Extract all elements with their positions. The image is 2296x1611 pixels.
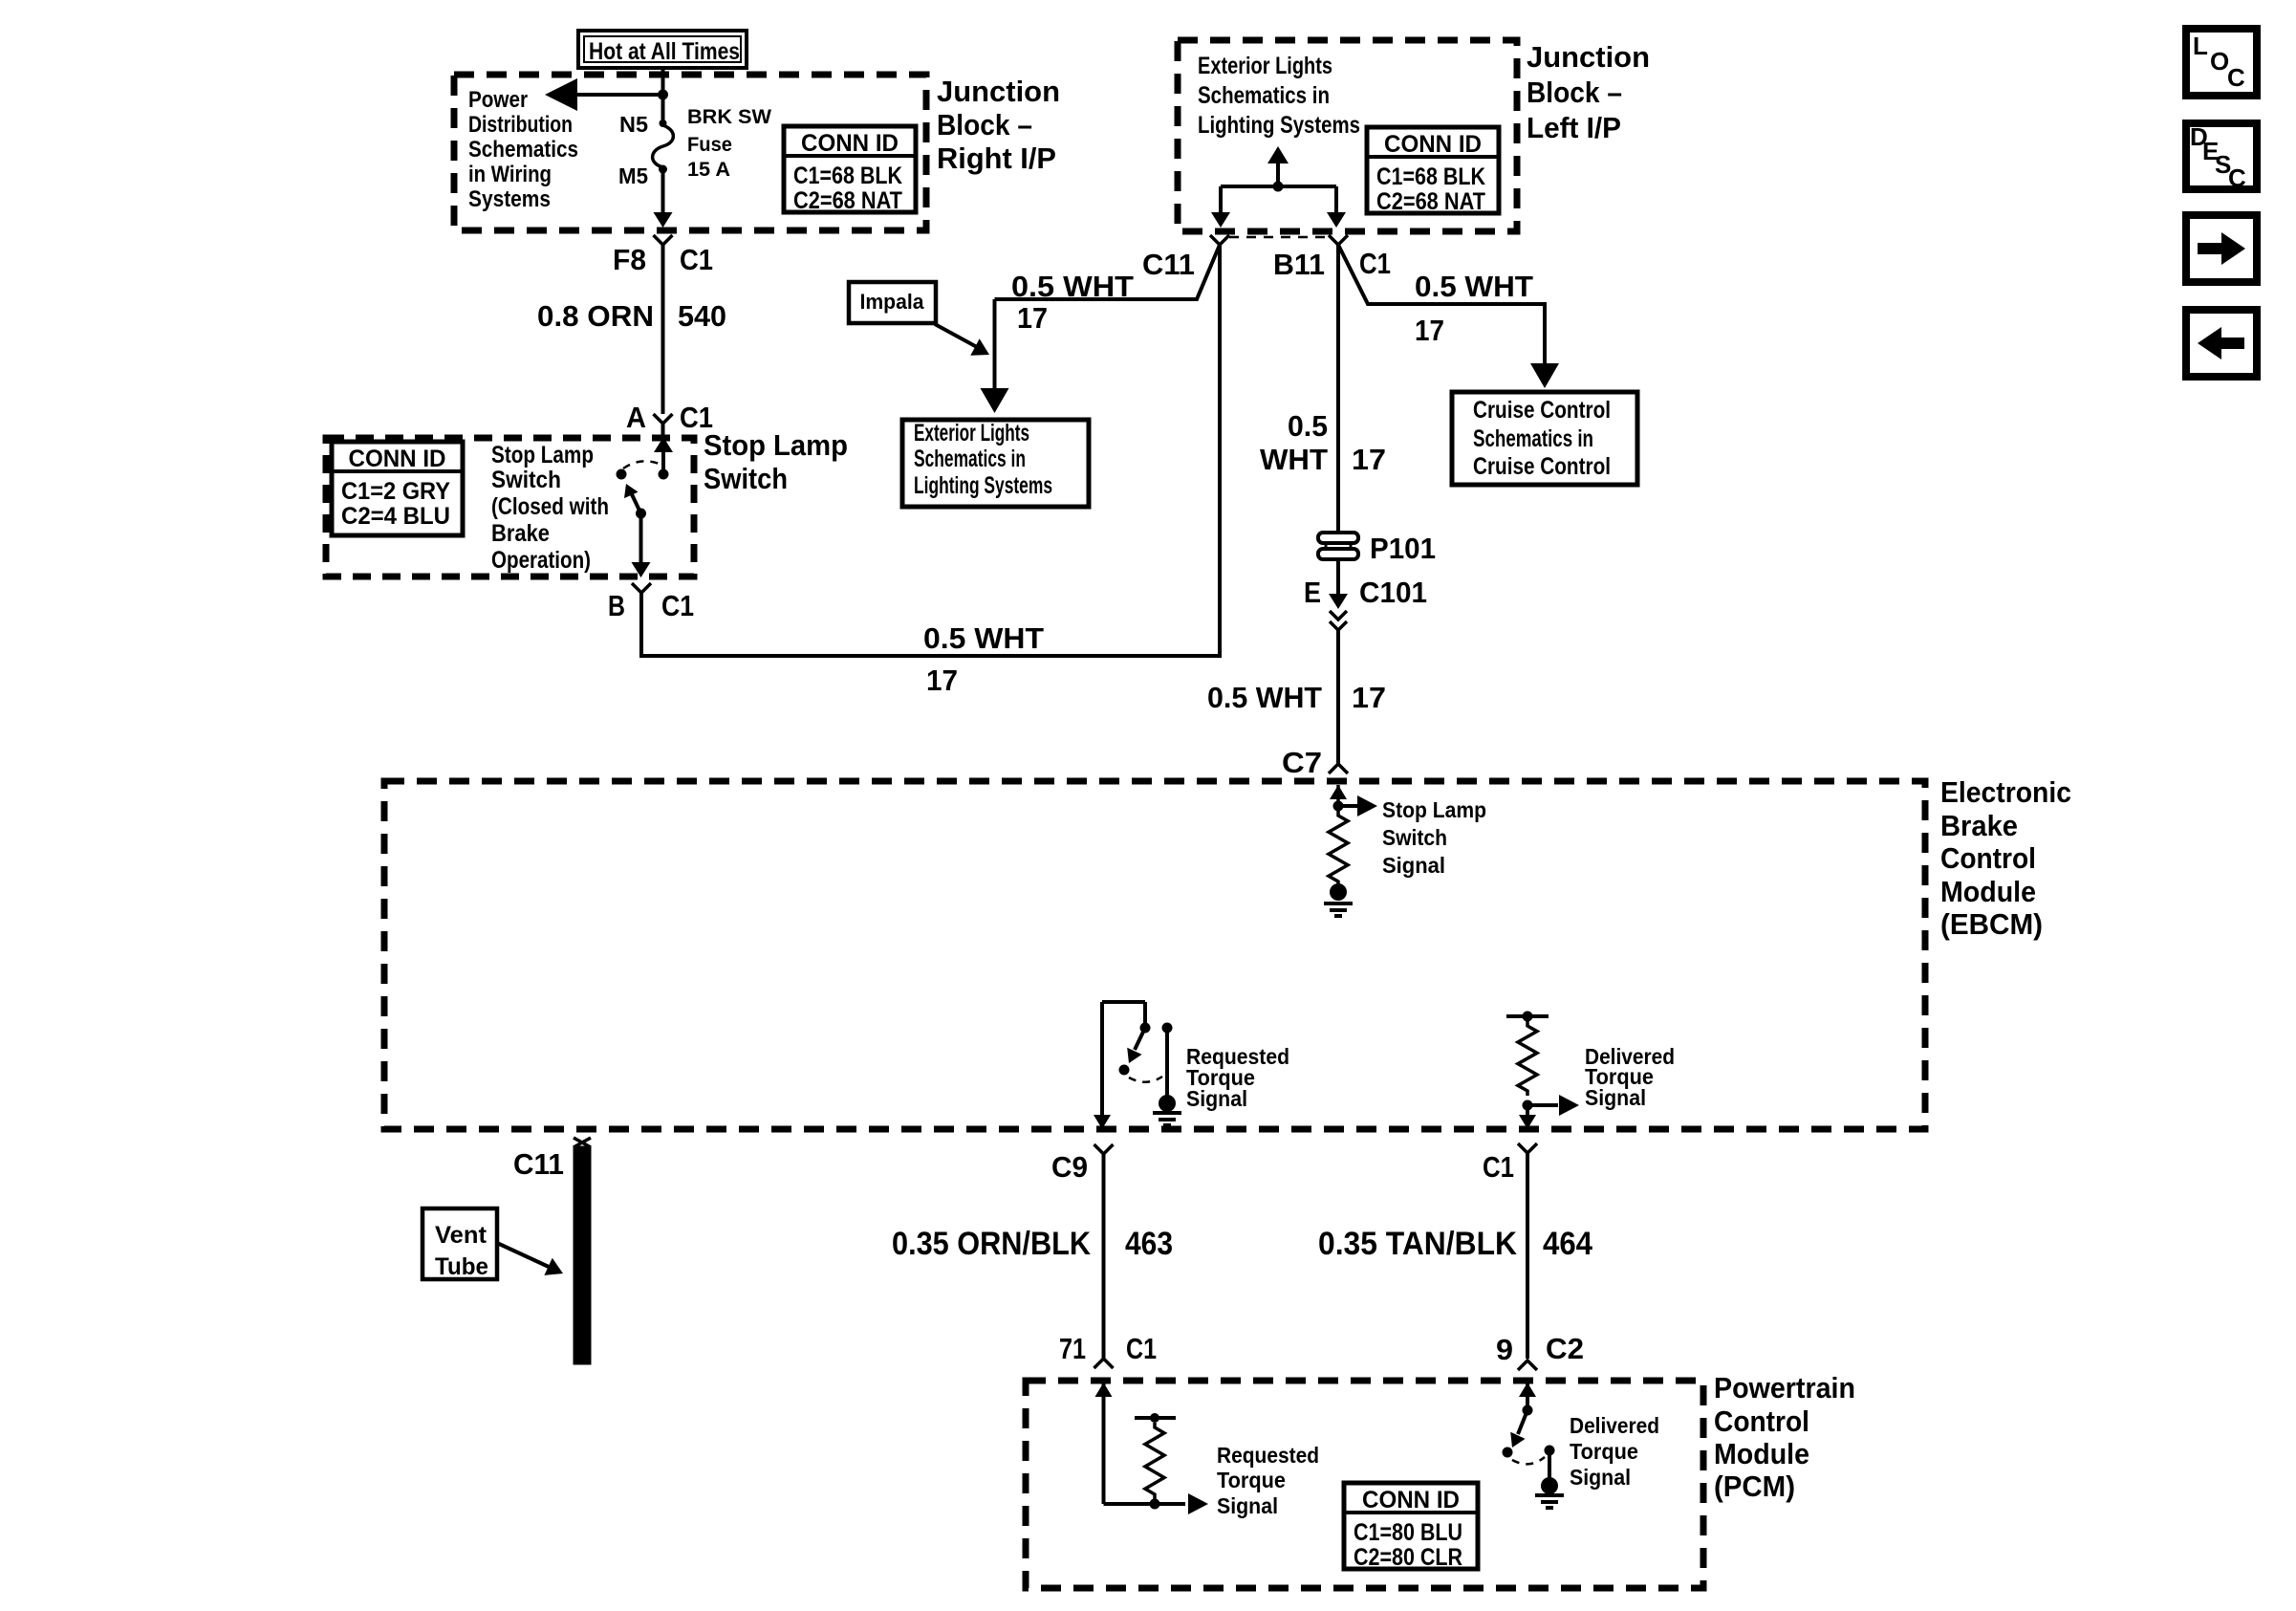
svg-text:CONN ID: CONN ID bbox=[1384, 131, 1482, 158]
arrow: Vent Tube pointer bbox=[497, 1243, 549, 1267]
svg-text:C2=68 NAT: C2=68 NAT bbox=[793, 187, 902, 214]
svg-text:Operation): Operation) bbox=[491, 547, 591, 574]
svg-text:Junction: Junction bbox=[937, 75, 1060, 108]
nav box: forward arrow bbox=[2186, 215, 2257, 282]
conn id box: junction block Right I/P (C1=68 BLK C2=68 NAT) bbox=[784, 126, 916, 212]
svg-text:C11: C11 bbox=[1142, 248, 1195, 281]
wire: drop into Exterior Lights schematics with arrow bbox=[993, 299, 997, 398]
connector B C1 of stop lamp switch bbox=[632, 583, 651, 593]
svg-text:P101: P101 bbox=[1370, 532, 1436, 565]
svg-text:Switch: Switch bbox=[1382, 825, 1447, 850]
svg-text:Right I/P: Right I/P bbox=[937, 142, 1056, 175]
svg-text:Torque: Torque bbox=[1570, 1439, 1638, 1464]
svg-text:in Wiring: in Wiring bbox=[468, 162, 552, 187]
svg-text:Signal: Signal bbox=[1570, 1465, 1631, 1490]
svg-text:Signal: Signal bbox=[1186, 1086, 1247, 1111]
svg-text:(EBCM): (EBCM) bbox=[1940, 907, 2043, 941]
svg-text:Exterior Lights: Exterior Lights bbox=[914, 420, 1029, 446]
svg-text:C9: C9 bbox=[1051, 1150, 1088, 1184]
svg-text:B: B bbox=[608, 589, 625, 622]
svg-text:Power: Power bbox=[468, 87, 528, 113]
svg-text:Module: Module bbox=[1714, 1437, 1809, 1470]
svg-text:E: E bbox=[1304, 576, 1321, 609]
svg-text:Cruise Control: Cruise Control bbox=[1473, 453, 1611, 480]
connector C9 of EBCM bbox=[1094, 1144, 1114, 1154]
svg-text:(Closed with: (Closed with bbox=[491, 493, 609, 520]
svg-text:Delivered: Delivered bbox=[1570, 1413, 1659, 1438]
svg-text:Brake: Brake bbox=[491, 520, 550, 547]
connector A C1 of stop lamp switch bbox=[654, 414, 673, 424]
svg-text:Exterior Lights: Exterior Lights bbox=[1198, 53, 1332, 79]
wire: Hot at All Times feed into junction block bbox=[661, 68, 665, 95]
PCM dashed box bbox=[1026, 1381, 1703, 1588]
wire: B11 down to grommet P101 bbox=[1336, 245, 1340, 532]
dashed tie between C11 and B11 connectors bbox=[1229, 236, 1329, 239]
connector 71 C1 of PCM bbox=[1094, 1359, 1114, 1368]
svg-text:0.35 ORN/BLK: 0.35 ORN/BLK bbox=[892, 1226, 1091, 1262]
EBCM delivered torque output bbox=[1523, 1100, 1533, 1111]
svg-text:Signal: Signal bbox=[1382, 853, 1445, 878]
svg-text:71: 71 bbox=[1059, 1332, 1086, 1365]
svg-text:(PCM): (PCM) bbox=[1714, 1469, 1795, 1503]
svg-text:Impala: Impala bbox=[860, 290, 925, 314]
junction block Left I/P dashed box bbox=[1178, 40, 1517, 231]
svg-text:Stop Lamp: Stop Lamp bbox=[491, 442, 594, 468]
svg-text:Fuse: Fuse bbox=[687, 134, 732, 156]
wire: EBCM C9 to PCM 71 bbox=[1102, 1154, 1106, 1359]
svg-text:CONN ID: CONN ID bbox=[349, 446, 446, 472]
PCM delivered torque switch bbox=[1519, 1382, 1536, 1397]
EBCM requested torque switch bbox=[1100, 1002, 1104, 1117]
svg-text:Control: Control bbox=[1714, 1404, 1809, 1438]
svg-text:B11: B11 bbox=[1273, 248, 1325, 281]
wire: switch output to B with arrow at box edge bbox=[639, 513, 643, 564]
nav box: LOC bbox=[2186, 29, 2257, 96]
connector E C101 pass-through bbox=[1336, 559, 1340, 595]
vent tube bar bbox=[574, 1146, 591, 1364]
svg-text:C1=68 BLK: C1=68 BLK bbox=[793, 163, 902, 189]
svg-text:Electronic: Electronic bbox=[1940, 775, 2071, 809]
switch: stop lamp switch contacts and arm bbox=[659, 469, 669, 480]
svg-text:BRK SW: BRK SW bbox=[687, 106, 771, 128]
svg-text:Switch: Switch bbox=[704, 462, 788, 495]
svg-text:0.5 WHT: 0.5 WHT bbox=[1011, 270, 1134, 303]
svg-text:M5: M5 bbox=[618, 163, 648, 188]
resistor: delivered torque signal bbox=[1518, 1021, 1537, 1096]
svg-text:C1: C1 bbox=[661, 589, 694, 622]
svg-text:C101: C101 bbox=[1359, 576, 1427, 609]
svg-text:540: 540 bbox=[678, 299, 726, 333]
bus: junction block internal feed bbox=[1221, 185, 1336, 188]
svg-text:17: 17 bbox=[1352, 443, 1386, 476]
grommet P101 bbox=[1318, 533, 1358, 543]
svg-text:C2=4 BLU: C2=4 BLU bbox=[341, 503, 450, 530]
svg-text:C11: C11 bbox=[513, 1147, 564, 1181]
connector B11 C1 of junction block Left I/P bbox=[1329, 235, 1348, 245]
svg-text:C1: C1 bbox=[1359, 247, 1391, 280]
svg-text:0.5 WHT: 0.5 WHT bbox=[1415, 270, 1533, 303]
ground: requested torque switch contact bbox=[1159, 1095, 1176, 1112]
svg-text:Hot at All Times: Hot at All Times bbox=[589, 38, 740, 65]
PCM requested torque input bbox=[1095, 1382, 1113, 1397]
arrow: feed to Power Distribution schematics (left) bbox=[574, 93, 663, 97]
svg-text:Schematics in: Schematics in bbox=[1473, 425, 1593, 452]
conn id box: junction block Left I/P (C1=68 BLK C2=68 NAT) bbox=[1367, 127, 1499, 213]
svg-text:CONN ID: CONN ID bbox=[1362, 1487, 1460, 1513]
svg-text:F8: F8 bbox=[613, 243, 646, 276]
nav box: DESC bbox=[2186, 123, 2257, 189]
svg-text:C: C bbox=[2228, 163, 2246, 192]
svg-text:C1=2 GRY: C1=2 GRY bbox=[341, 478, 450, 505]
svg-text:Lighting Systems: Lighting Systems bbox=[914, 472, 1052, 499]
svg-text:Junction: Junction bbox=[1527, 40, 1650, 74]
svg-text:0.5: 0.5 bbox=[1288, 409, 1328, 443]
connector C11 of junction block Left I/P bbox=[1210, 235, 1229, 245]
fuse: BRK SW Fuse 15 A (N5-M5) bbox=[661, 95, 665, 121]
svg-text:C2=80 CLR: C2=80 CLR bbox=[1354, 1544, 1462, 1571]
svg-text:463: 463 bbox=[1125, 1226, 1173, 1262]
note box: Vent Tube bbox=[422, 1208, 497, 1279]
EBCM stop lamp switch signal input bbox=[1330, 785, 1347, 799]
connector 9 C2 of PCM bbox=[1518, 1361, 1537, 1370]
svg-text:0.5 WHT: 0.5 WHT bbox=[1207, 681, 1322, 714]
stop lamp switch dashed box bbox=[326, 438, 694, 577]
ref box: Exterior Lights Schematics in Lighting Systems bbox=[902, 420, 1089, 507]
connector C1 of EBCM delivered torque bbox=[1518, 1143, 1537, 1153]
wire: switch input with up arrow at box edge bbox=[654, 437, 673, 452]
resistor: stop lamp switch signal pull bbox=[1329, 811, 1348, 886]
svg-text:0.5 WHT: 0.5 WHT bbox=[923, 621, 1044, 655]
note box: Impala bbox=[849, 282, 936, 323]
svg-text:Stop Lamp: Stop Lamp bbox=[1382, 797, 1486, 822]
ground: delivered torque switch contact (PCM) bbox=[1541, 1477, 1558, 1494]
arrow: Impala note pointer bbox=[935, 324, 977, 347]
svg-text:N5: N5 bbox=[619, 112, 648, 137]
svg-text:Torque: Torque bbox=[1217, 1468, 1286, 1492]
resistor: requested torque (PCM) bbox=[1135, 1416, 1176, 1420]
svg-text:Systems: Systems bbox=[468, 186, 551, 212]
svg-text:17: 17 bbox=[926, 664, 958, 697]
svg-text:CONN ID: CONN ID bbox=[801, 130, 899, 157]
svg-text:C2=68 NAT: C2=68 NAT bbox=[1376, 188, 1485, 215]
svg-text:17: 17 bbox=[1415, 314, 1444, 347]
svg-text:Left I/P: Left I/P bbox=[1527, 111, 1621, 144]
svg-text:0.35 TAN/BLK: 0.35 TAN/BLK bbox=[1318, 1226, 1517, 1262]
svg-text:Brake: Brake bbox=[1940, 809, 2018, 842]
nav box: back arrow bbox=[2186, 310, 2257, 377]
wire: fuse output to F8 with arrow at box edge bbox=[661, 169, 665, 214]
conn id box: PCM (C1=80 BLU C2=80 CLR) bbox=[1344, 1483, 1478, 1569]
wire: C101 to EBCM C7 bbox=[1336, 630, 1340, 764]
svg-text:0.8 ORN: 0.8 ORN bbox=[537, 299, 654, 333]
svg-text:Module: Module bbox=[1940, 875, 2036, 908]
svg-text:Schematics: Schematics bbox=[468, 137, 578, 163]
wire: C11 branch to Impala exterior lights drop bbox=[995, 245, 1221, 299]
svg-text:Tube: Tube bbox=[435, 1253, 488, 1280]
svg-text:9: 9 bbox=[1496, 1333, 1513, 1366]
ground: stop lamp switch signal bbox=[1330, 883, 1347, 901]
svg-text:C1=68 BLK: C1=68 BLK bbox=[1376, 163, 1485, 190]
svg-text:C7: C7 bbox=[1282, 746, 1322, 779]
svg-text:Schematics in: Schematics in bbox=[1198, 82, 1330, 109]
svg-text:C1: C1 bbox=[1483, 1150, 1514, 1184]
EBCM dashed box bbox=[384, 781, 1925, 1129]
svg-text:L: L bbox=[2193, 32, 2208, 60]
junction block Right I/P dashed box bbox=[454, 75, 926, 230]
connector C7 of EBCM bbox=[1329, 764, 1348, 773]
power tag box: Hot at All Times bbox=[578, 31, 747, 68]
svg-text:Block –: Block – bbox=[937, 108, 1032, 142]
svg-text:Schematics in: Schematics in bbox=[914, 446, 1026, 472]
svg-text:Powertrain: Powertrain bbox=[1714, 1371, 1855, 1404]
ref box: Cruise Control Schematics in Cruise Control bbox=[1452, 392, 1637, 485]
svg-text:C2: C2 bbox=[1546, 1332, 1584, 1365]
connector C11 vent tube bbox=[574, 1138, 591, 1147]
svg-text:Signal: Signal bbox=[1585, 1085, 1646, 1110]
svg-text:Vent: Vent bbox=[435, 1222, 487, 1249]
svg-text:C: C bbox=[2227, 63, 2245, 92]
svg-text:Cruise Control: Cruise Control bbox=[1473, 397, 1611, 424]
svg-text:Requested: Requested bbox=[1217, 1443, 1319, 1468]
svg-text:WHT: WHT bbox=[1260, 443, 1328, 476]
svg-text:15 A: 15 A bbox=[687, 159, 730, 181]
wire: EBCM C1 to PCM 9 bbox=[1526, 1153, 1529, 1359]
svg-text:C1: C1 bbox=[680, 243, 713, 276]
svg-text:Switch: Switch bbox=[491, 467, 561, 493]
svg-text:Control: Control bbox=[1940, 841, 2036, 875]
wire: B11 branch to Cruise Control schematics bbox=[1338, 245, 1545, 373]
EBCM delivered torque source bbox=[1506, 1014, 1549, 1018]
node: feed junction dot bbox=[658, 90, 668, 100]
svg-text:Stop Lamp: Stop Lamp bbox=[704, 428, 848, 462]
svg-text:Signal: Signal bbox=[1217, 1493, 1278, 1518]
wire: stop lamp switch B to junction block C11 riser bbox=[641, 245, 1220, 656]
connector F8 C1 of junction block bbox=[654, 235, 673, 245]
svg-text:A: A bbox=[626, 401, 646, 434]
svg-text:Distribution: Distribution bbox=[468, 112, 573, 138]
conn id box: stop lamp switch (C1=2 GRY C2=4 BLU) bbox=[332, 442, 463, 535]
svg-text:17: 17 bbox=[1017, 301, 1048, 335]
svg-text:Block –: Block – bbox=[1527, 76, 1622, 109]
svg-text:C1=80 BLU: C1=80 BLU bbox=[1354, 1519, 1462, 1546]
svg-text:Lighting Systems: Lighting Systems bbox=[1198, 112, 1360, 139]
svg-text:C1: C1 bbox=[1126, 1332, 1157, 1365]
svg-text:17: 17 bbox=[1352, 681, 1386, 714]
svg-text:464: 464 bbox=[1543, 1226, 1592, 1262]
